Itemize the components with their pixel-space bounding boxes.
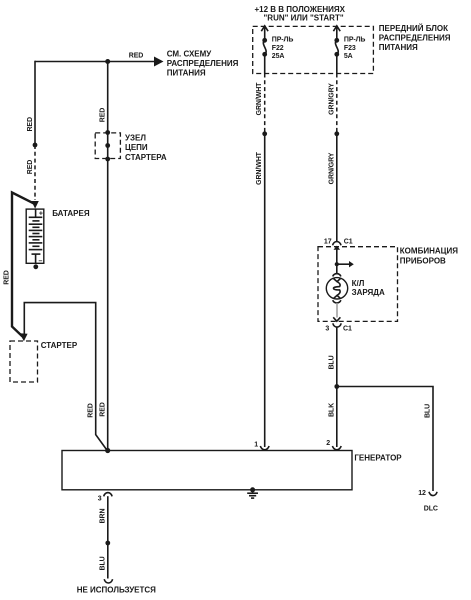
label ПЕРЕДНИЙ БЛОК РАСПРЕДЕЛЕНИЯ ПИТАНИЯ — [379, 24, 451, 52]
ground: generator case ground — [247, 487, 258, 498]
svg-text:КОМБИНАЦИЯ: КОМБИНАЦИЯ — [400, 247, 458, 256]
arrow: to power distribution diagram — [154, 57, 164, 67]
svg-text:ЦЕПИ: ЦЕПИ — [125, 143, 148, 152]
wire: GRN/WHT solid to generator pin 1 — [264, 134, 266, 447]
wire: battery positive thick cable to starter — [12, 193, 35, 337]
svg-text:3: 3 — [98, 496, 102, 503]
svg-text:БАТАРЕЯ: БАТАРЕЯ — [52, 209, 90, 218]
svg-text:C1: C1 — [344, 238, 353, 245]
label УЗЕЛ ЦЕПИ СТАРТЕРА — [125, 134, 167, 163]
terminator: unused lead cup — [104, 579, 112, 583]
wire: GRN/GRY solid to cluster connector — [336, 134, 338, 242]
svg-text:F23: F23 — [344, 45, 356, 52]
svg-text:GRN/WHT: GRN/WHT — [256, 82, 263, 116]
wire: BLU branch to DLC — [337, 387, 433, 492]
svg-text:RED: RED — [99, 402, 106, 417]
wire: main RED vertical from top junction to generator — [107, 62, 109, 451]
generator — [62, 451, 352, 490]
svg-text:25A: 25A — [272, 53, 285, 60]
wire: BLU not used — [107, 543, 109, 579]
svg-text:+: + — [39, 210, 43, 217]
note: +12 В В ПОЛОЖЕНИЯХ "RUN" ИЛИ "START" — [255, 5, 346, 23]
svg-text:GRN/WHT: GRN/WHT — [256, 151, 263, 185]
wire: BLU from cluster to junction — [336, 327, 338, 386]
front power distribution box — [253, 26, 374, 73]
connector DLC pin 12 — [418, 490, 438, 512]
wire: GRN/WHT dashed from fuse F22 — [264, 74, 266, 134]
pin 1 of generator — [254, 441, 269, 450]
svg-text:2: 2 — [326, 440, 330, 447]
svg-text:GRN/GRY: GRN/GRY — [328, 152, 335, 184]
svg-text:12: 12 — [418, 490, 426, 497]
svg-text:RED: RED — [99, 108, 106, 123]
arrow: branch to rest of cluster — [337, 263, 350, 265]
connector C1 pin 17 — [324, 238, 353, 250]
wire: top horizontal RED feed — [35, 61, 155, 63]
svg-text:RED: RED — [129, 52, 144, 59]
wire: GRN/GRY dashed from fuse F23 — [336, 74, 338, 134]
label КОМБИНАЦИЯ ПРИБОРОВ — [400, 247, 458, 266]
node: battery negative terminal — [33, 264, 38, 269]
svg-text:GRN/GRY: GRN/GRY — [328, 83, 335, 115]
svg-text:+12 В В ПОЛОЖЕНИЯХ: +12 В В ПОЛОЖЕНИЯХ — [255, 5, 346, 14]
wire: BRN from pin 3 — [107, 496, 109, 543]
node: splice bottom — [105, 157, 110, 162]
svg-text:К/Л: К/Л — [352, 279, 365, 288]
svg-text:НЕ ИСПОЛЬЗУЕТСЯ: НЕ ИСПОЛЬЗУЕТСЯ — [77, 585, 156, 594]
svg-text:ПЕРЕДНИЙ БЛОК: ПЕРЕДНИЙ БЛОК — [379, 24, 448, 33]
node: splice GRN/GRY — [334, 131, 339, 136]
svg-text:ПРИБОРОВ: ПРИБОРОВ — [400, 256, 446, 265]
svg-text:ПИТАНИЯ: ПИТАНИЯ — [379, 43, 418, 52]
svg-text:5A: 5A — [344, 53, 353, 60]
wire: dashed RED to battery — [34, 145, 36, 200]
arrow: into battery positive — [31, 201, 38, 209]
svg-text:BLU: BLU — [425, 404, 432, 418]
svg-text:СТАРТЕРА: СТАРТЕРА — [125, 153, 167, 162]
node: splice middle — [105, 143, 110, 148]
svg-text:ПР-ЛЬ: ПР-ЛЬ — [344, 37, 366, 44]
wire: starter output to generator B+ — [24, 303, 106, 450]
pin 3 of generator (bottom) — [98, 493, 112, 503]
svg-text:RED: RED — [87, 403, 94, 418]
fuse F23 5A — [333, 26, 365, 74]
wire: lamp to connector (gray) — [336, 303, 338, 318]
instrument cluster box — [318, 247, 398, 322]
svg-text:C1: C1 — [343, 326, 352, 333]
node: splice top — [105, 130, 110, 135]
svg-text:1: 1 — [254, 441, 258, 448]
svg-text:"RUN" ИЛИ "START": "RUN" ИЛИ "START" — [264, 14, 344, 23]
pin 2 of generator — [326, 440, 341, 450]
svg-text:СМ. СХЕМУ: СМ. СХЕМУ — [167, 49, 213, 58]
node: splice GRN/WHT — [262, 131, 267, 136]
svg-text:DLC: DLC — [424, 505, 438, 512]
wire: BLK to generator pin 2 — [336, 387, 338, 448]
svg-text:RED: RED — [27, 117, 34, 132]
charge indicator lamp К/Л ЗАРЯДА — [326, 274, 347, 303]
svg-text:СТАРТЕР: СТАРТЕР — [41, 341, 78, 350]
svg-text:RED: RED — [4, 270, 11, 285]
svg-text:BRN: BRN — [99, 509, 106, 524]
arrow: into starter terminal — [20, 333, 28, 341]
node: splice BRN/BLU — [105, 541, 110, 546]
battery — [26, 209, 44, 265]
svg-text:РАСПРЕДЕЛЕНИЯ: РАСПРЕДЕЛЕНИЯ — [167, 59, 239, 68]
starter — [10, 341, 38, 382]
svg-text:17: 17 — [324, 238, 332, 245]
svg-text:УЗЕЛ: УЗЕЛ — [125, 134, 146, 143]
wire: connector to lamp — [336, 250, 338, 275]
connector C1 pin 3 — [325, 317, 352, 332]
svg-text:ЗАРЯДА: ЗАРЯДА — [352, 288, 385, 297]
svg-text:BLK: BLK — [328, 403, 335, 417]
node: top junction — [105, 59, 110, 64]
node: branch in cluster — [335, 262, 339, 266]
svg-text:ПР-ЛЬ: ПР-ЛЬ — [272, 37, 294, 44]
label К/Л ЗАРЯДА — [352, 279, 385, 297]
svg-text:ГЕНЕРАТОР: ГЕНЕРАТОР — [354, 453, 402, 462]
svg-text:ПИТАНИЯ: ПИТАНИЯ — [167, 68, 206, 77]
svg-text:BLU: BLU — [328, 355, 335, 369]
svg-text:RED: RED — [27, 160, 34, 175]
fuse F22 25A — [261, 26, 293, 74]
svg-text:BLU: BLU — [99, 556, 106, 570]
svg-text:РАСПРЕДЕЛЕНИЯ: РАСПРЕДЕЛЕНИЯ — [379, 34, 451, 43]
note: СМ. СХЕМУ РАСПРЕДЕЛЕНИЯ ПИТАНИЯ — [167, 49, 239, 77]
node: splice on left drop — [33, 143, 38, 148]
node: junction at generator B+ input — [105, 448, 110, 453]
starter circuit node box — [95, 133, 120, 159]
node: BLU/BLK junction — [334, 384, 339, 389]
wire: left RED drop — [34, 61, 36, 145]
svg-text:–: – — [39, 258, 43, 265]
svg-text:F22: F22 — [272, 45, 284, 52]
svg-text:3: 3 — [325, 326, 329, 333]
